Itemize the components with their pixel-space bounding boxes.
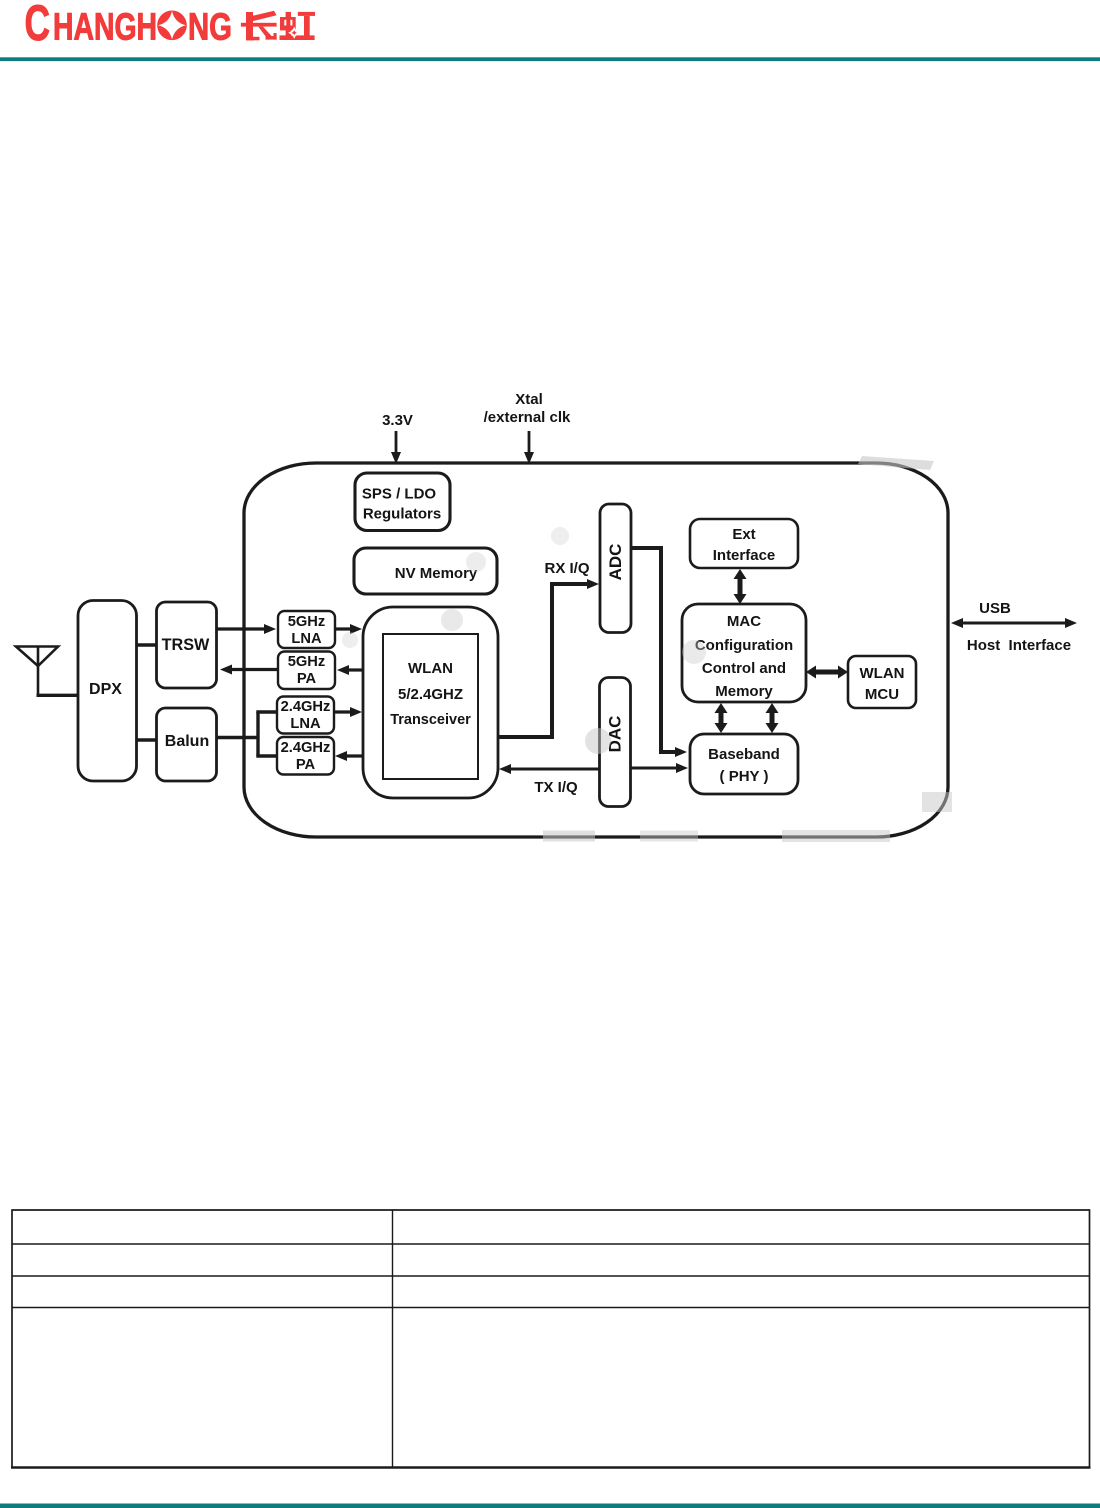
- wire Balun to 2.4GHz junction: [216, 736, 258, 740]
- logo hanzi chang: [241, 11, 277, 41]
- antenna: [16, 647, 58, 696]
- table row line 3: [12, 1307, 1090, 1309]
- svg-text:5GHz: 5GHz: [288, 614, 326, 630]
- block DPX: [78, 601, 137, 782]
- logo hanzi hong: [280, 12, 316, 40]
- wire DPX to Balun: [136, 738, 156, 741]
- header rule: [0, 57, 1100, 61]
- svg-text:Balun: Balun: [165, 733, 209, 750]
- wire 5GHz LNA to transceiver arrow: [335, 624, 362, 634]
- svg-text:5GHz: 5GHz: [288, 654, 326, 670]
- svg-text:TRSW: TRSW: [162, 636, 210, 654]
- wire transceiver to 2.4GHz PA arrow: [335, 751, 363, 761]
- table bottom border: [11, 1466, 1091, 1468]
- wire antenna to DPX: [37, 694, 79, 697]
- wire Ext Interface to MAC double arrow: [734, 569, 747, 604]
- table right border: [1089, 1209, 1091, 1467]
- svg-text:WLAN: WLAN: [860, 665, 905, 682]
- svg-text:Xtal: Xtal: [515, 391, 543, 408]
- wire TRSW to 5GHz LNA arrow: [216, 624, 276, 634]
- svg-text:Control and: Control and: [702, 660, 786, 677]
- block Ext Interface: [690, 519, 798, 568]
- wire junction to 2.4GHz PA: [256, 754, 277, 757]
- table row line 1: [12, 1243, 1090, 1245]
- block WLAN MCU: [848, 656, 916, 708]
- svg-text:Configuration: Configuration: [695, 637, 793, 654]
- svg-text:C: C: [25, 0, 51, 51]
- svg-text:Memory: Memory: [715, 683, 773, 700]
- wire DAC to Baseband arrow: [630, 763, 688, 773]
- wire ADC to Baseband: [632, 548, 687, 757]
- block ADC: [600, 504, 631, 633]
- svg-text:Host Interface: Host Interface: [967, 637, 1071, 654]
- svg-text:HANGH: HANGH: [53, 7, 157, 49]
- block SPS/LDO Regulators: [355, 473, 450, 531]
- block WLAN transceiver: [363, 607, 498, 798]
- svg-text:2.4GHz: 2.4GHz: [281, 740, 331, 756]
- svg-text:Transceiver: Transceiver: [390, 712, 471, 728]
- block DAC: [600, 678, 631, 807]
- svg-text:2.4GHz: 2.4GHz: [281, 699, 331, 715]
- chip boundary: [244, 463, 948, 837]
- table top border: [12, 1209, 1090, 1211]
- wire RX I/Q transceiver to ADC: [498, 579, 599, 737]
- svg-text:LNA: LNA: [291, 631, 322, 647]
- block 2.4GHz PA: [277, 737, 334, 775]
- block 5GHz LNA: [278, 611, 335, 648]
- wire USB host interface double arrow: [951, 618, 1077, 628]
- svg-text:Baseband: Baseband: [708, 746, 780, 763]
- wire TX I/Q DAC to transceiver arrow: [499, 764, 599, 774]
- table column divider: [392, 1210, 394, 1468]
- block Baseband (PHY): [690, 734, 798, 794]
- svg-text:Ext: Ext: [732, 526, 755, 543]
- svg-text:DPX: DPX: [89, 681, 122, 698]
- wire MAC to Baseband double arrow right: [766, 703, 779, 733]
- svg-text:TX I/Q: TX I/Q: [534, 779, 578, 796]
- table row line 2: [12, 1275, 1090, 1277]
- svg-text:NG: NG: [188, 7, 232, 49]
- block NV Memory: [354, 548, 497, 594]
- svg-text:Interface: Interface: [713, 547, 776, 564]
- wire DPX to TRSW: [136, 643, 156, 646]
- svg-text:( PHY ): ( PHY ): [720, 768, 769, 785]
- block 5GHz PA: [278, 652, 335, 690]
- svg-text:PA: PA: [296, 757, 316, 773]
- wire 3.3V supply arrow: [391, 431, 401, 464]
- svg-text:/external clk: /external clk: [484, 409, 571, 426]
- wire 2.4GHz LNA to transceiver arrow: [334, 707, 362, 717]
- svg-text:SPS / LDO: SPS / LDO: [362, 486, 437, 503]
- block MAC Configuration Control and Memory: [682, 604, 806, 702]
- footer rule: [0, 1504, 1100, 1508]
- wire 5GHz PA to TRSW arrow: [220, 665, 278, 675]
- wire MAC to WLAN MCU double arrow: [806, 666, 848, 679]
- block Balun: [157, 708, 217, 781]
- wire junction vertical: [256, 712, 259, 756]
- svg-text:USB: USB: [979, 600, 1011, 617]
- watermark artifacts (light gray smudges): [342, 456, 952, 842]
- svg-text:5/2.4GHZ: 5/2.4GHZ: [398, 686, 463, 703]
- wire xtal clock arrow: [524, 431, 534, 464]
- block TRSW: [157, 602, 217, 688]
- svg-text:MCU: MCU: [865, 686, 899, 703]
- svg-text:RX I/Q: RX I/Q: [544, 560, 589, 577]
- wire transceiver to 5GHz PA arrow: [337, 665, 363, 675]
- svg-text:ADC: ADC: [606, 544, 625, 581]
- wire MAC to Baseband double arrow left: [715, 703, 728, 733]
- svg-text:PA: PA: [297, 671, 317, 687]
- svg-text:NV Memory: NV Memory: [395, 565, 478, 582]
- svg-text:LNA: LNA: [290, 716, 321, 732]
- block 2.4GHz LNA: [277, 697, 334, 734]
- logo CHANGHONG: [25, 0, 233, 51]
- wire junction to 2.4GHz LNA: [256, 710, 277, 713]
- svg-text:Regulators: Regulators: [363, 506, 441, 523]
- svg-text:3.3V: 3.3V: [382, 412, 413, 429]
- label Xtal /external clk: [484, 391, 571, 426]
- svg-text:MAC: MAC: [727, 613, 761, 630]
- table left border: [11, 1209, 13, 1467]
- svg-text:WLAN: WLAN: [408, 660, 453, 677]
